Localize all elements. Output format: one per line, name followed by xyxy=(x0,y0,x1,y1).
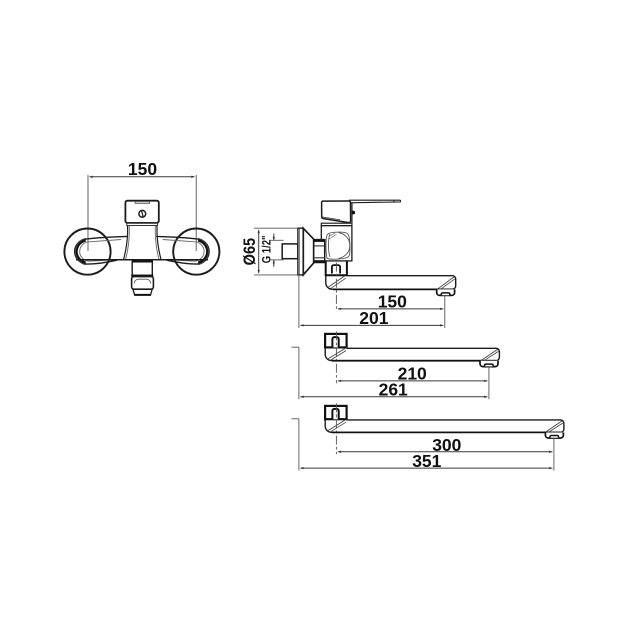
dim line 351 xyxy=(300,467,552,469)
lever bar xyxy=(350,200,401,203)
center line spout (150) xyxy=(335,263,337,312)
cartridge band xyxy=(321,223,352,226)
diagonal right xyxy=(481,349,497,360)
arm inner contour left xyxy=(80,240,121,262)
body column left side xyxy=(124,226,128,260)
body column right side xyxy=(157,226,161,260)
dark eccentric crescent right xyxy=(198,240,208,263)
dim line 150 (front) xyxy=(90,176,195,178)
dim line 261 xyxy=(300,396,487,398)
wall line (201) xyxy=(298,275,300,328)
pivot dot xyxy=(351,211,355,215)
svg-text:201: 201 xyxy=(359,308,388,328)
center line xyxy=(335,331,337,383)
body side edge right of handle xyxy=(351,203,353,223)
wall flange plate xyxy=(298,228,303,275)
dark eccentric crescent left xyxy=(76,240,86,263)
flange cone xyxy=(303,228,313,274)
left flange circle xyxy=(64,229,110,275)
dim line 300 xyxy=(338,451,553,453)
extension line left xyxy=(87,175,89,251)
svg-text:Ø65: Ø65 xyxy=(240,238,259,266)
body arms silhouette xyxy=(75,236,128,264)
ext line aerator (150) xyxy=(444,296,446,328)
body ghost rounded square xyxy=(326,232,350,259)
extension line right xyxy=(195,175,197,251)
arm xyxy=(325,419,564,432)
aerator xyxy=(545,433,563,439)
spout diagonal highlight left xyxy=(328,276,345,288)
hex nut xyxy=(314,240,325,263)
handle tab xyxy=(135,201,150,203)
spout diagonal highlight right xyxy=(438,277,455,289)
diagonal right xyxy=(546,421,562,432)
body main (side) xyxy=(321,226,352,261)
right flange circle xyxy=(173,229,219,275)
svg-text:G 1/2": G 1/2" xyxy=(262,236,274,264)
mount block xyxy=(325,406,347,419)
center line xyxy=(335,403,337,454)
handle block (front) xyxy=(125,201,158,223)
ext aerator 210 xyxy=(488,367,490,399)
outlet top section xyxy=(132,260,152,275)
aerator (front) xyxy=(132,277,154,290)
screw xyxy=(139,210,146,217)
svg-text:150: 150 xyxy=(128,159,157,179)
inner fitting xyxy=(332,337,338,347)
body bottom edge xyxy=(76,259,208,261)
body dome arc xyxy=(339,233,350,259)
dim line 201 xyxy=(300,324,443,326)
aerator xyxy=(480,361,498,367)
arm inner contour right xyxy=(163,240,204,262)
arm xyxy=(325,347,499,360)
handle body (side) xyxy=(322,201,351,223)
inner fitting xyxy=(332,409,338,419)
diagonal left xyxy=(328,349,345,359)
spout arm (150) xyxy=(326,275,456,289)
wall line 261 xyxy=(298,347,300,399)
dim line 150 (side) xyxy=(338,308,443,310)
spout outlet block (side) xyxy=(326,261,347,275)
ext aerator 300 xyxy=(553,438,555,470)
wall tick xyxy=(292,346,300,348)
wall line 351 xyxy=(298,419,300,471)
aerator taper xyxy=(133,289,152,295)
diagonal left xyxy=(328,420,345,431)
G 1/2 pipe xyxy=(282,244,298,259)
dim line 210 xyxy=(338,380,488,382)
wall tick xyxy=(292,418,300,420)
collar band under handle xyxy=(127,223,158,226)
aerator (150 spout) xyxy=(437,289,455,295)
mount block xyxy=(325,334,347,348)
